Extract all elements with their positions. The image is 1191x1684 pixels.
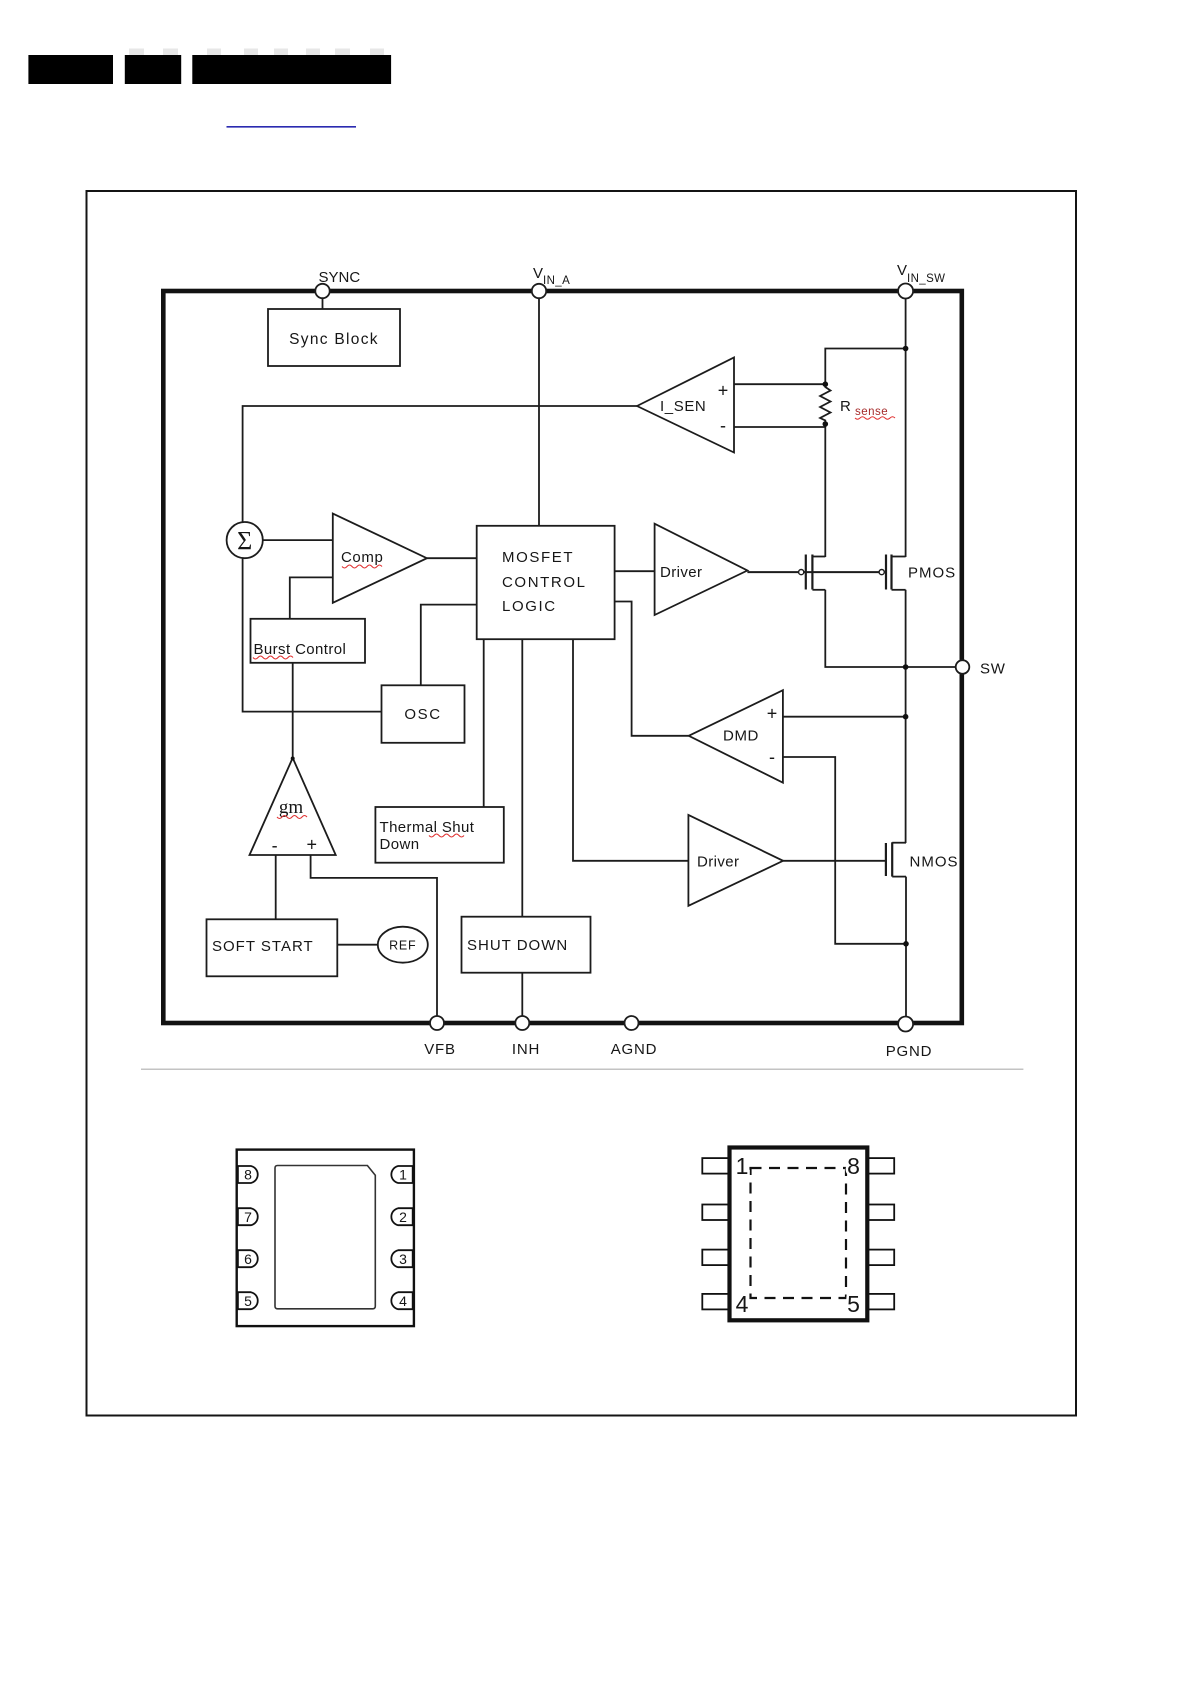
- svg-text:1: 1: [736, 1153, 749, 1179]
- svg-text:SYNC: SYNC: [319, 269, 361, 286]
- svg-text:OSC: OSC: [404, 706, 441, 723]
- wire: SYNC pin to Sync Block: [322, 293, 324, 309]
- pin SYNC: [315, 269, 360, 298]
- wire: sense FET source down to SW rail: [825, 590, 956, 667]
- svg-text:-: -: [769, 747, 775, 767]
- pin SW: [956, 660, 1006, 677]
- svg-text:3: 3: [399, 1251, 407, 1267]
- redaction bar tabs: [129, 49, 384, 56]
- wire: Burst Control to Comp lower input: [290, 577, 333, 618]
- svg-text:INH: INH: [512, 1041, 540, 1058]
- wire: Burst Control bottom to gm apex: [292, 662, 294, 758]
- svg-text:6: 6: [244, 1251, 252, 1267]
- svg-text:5: 5: [244, 1293, 252, 1309]
- wire: DMD output to MCL: [615, 602, 689, 736]
- junction Rsense top: [823, 381, 829, 387]
- package SO8 lead 7: [867, 1205, 894, 1221]
- voltage reference REF: [378, 927, 428, 963]
- pin VIN_SW: [897, 262, 945, 299]
- package SO8 lead 2: [702, 1205, 729, 1221]
- svg-text:SHUT DOWN: SHUT DOWN: [467, 937, 568, 954]
- svg-text:Sync Block: Sync Block: [289, 331, 379, 348]
- svg-text:-: -: [720, 416, 726, 436]
- svg-text:R: R: [840, 398, 851, 415]
- svg-text:8: 8: [847, 1153, 860, 1179]
- svg-text:8: 8: [244, 1167, 252, 1183]
- comparator DMD: [689, 690, 783, 783]
- buffer Driver2: [688, 815, 783, 906]
- svg-text:Driver: Driver: [697, 854, 739, 871]
- resistor Rsense: [820, 384, 895, 423]
- wire: I_SEN output to summer: [243, 406, 637, 522]
- comparator I_SEN: [637, 358, 734, 453]
- svg-text:+: +: [767, 704, 778, 724]
- svg-text:Driver: Driver: [660, 564, 702, 581]
- package SO8 lead 4: [702, 1294, 729, 1310]
- package DFN pin 7: [238, 1208, 258, 1225]
- transistor sense PMOS: [799, 555, 826, 590]
- svg-text:V: V: [897, 262, 907, 279]
- package DFN exposed pad: [275, 1166, 375, 1309]
- svg-text:gm: gm: [279, 797, 304, 818]
- wire: gm inverting input from SOFT START: [275, 855, 277, 919]
- wire: VIN_A pin down to MOSFET CONTROL LOGIC top: [538, 293, 540, 526]
- svg-text:V: V: [533, 265, 543, 282]
- svg-text:SOFT START: SOFT START: [212, 938, 314, 955]
- pin VFB: [424, 1016, 456, 1058]
- pin INH: [512, 1016, 540, 1058]
- junction NMOS source: [903, 941, 909, 947]
- package DFN pin 1: [391, 1166, 412, 1183]
- package SO8 lead 3: [702, 1250, 729, 1266]
- package SO8 lead 5: [867, 1294, 894, 1310]
- package DFN pin 2: [391, 1208, 412, 1225]
- block Thermal Shut Down: [375, 807, 503, 863]
- junction gm apex: [291, 757, 295, 761]
- svg-text:IN_A: IN_A: [543, 275, 570, 287]
- svg-text:PMOS: PMOS: [908, 565, 956, 582]
- svg-text:7: 7: [244, 1209, 252, 1225]
- package DFN pin 4: [391, 1292, 412, 1309]
- svg-text:AGND: AGND: [611, 1041, 658, 1058]
- svg-text:5: 5: [847, 1291, 860, 1317]
- wire: summer output to Comp input: [263, 539, 333, 541]
- svg-text:MOSFET: MOSFET: [502, 549, 574, 566]
- wire: NMOS source to PGND: [905, 877, 907, 1023]
- block SOFT START: [207, 919, 338, 976]
- svg-text:sense: sense: [855, 406, 888, 418]
- svg-text:2: 2: [399, 1209, 407, 1225]
- package DFN pin 8: [238, 1166, 258, 1183]
- wire: Comp output to MOSFET CONTROL LOGIC: [427, 557, 477, 559]
- block Burst Control: [251, 619, 366, 663]
- redaction bar 1: [28, 55, 113, 84]
- svg-text:Comp: Comp: [341, 549, 383, 566]
- wire: DMD + input from SW net: [783, 716, 906, 718]
- wire: I_SEN + input to Rsense top: [734, 383, 825, 385]
- svg-text:I_SEN: I_SEN: [660, 398, 706, 415]
- block Sync Block: [268, 309, 400, 366]
- junction SW / PMOS source: [903, 664, 909, 670]
- package SO8 body: [730, 1148, 868, 1321]
- svg-text:DMD: DMD: [723, 728, 759, 745]
- block MOSFET CONTROL LOGIC: [477, 526, 615, 639]
- package DFN pin 5: [238, 1292, 258, 1309]
- figure border: [87, 191, 1077, 1416]
- pin AGND: [611, 1016, 658, 1058]
- wire: SOFT START to REF: [337, 944, 378, 946]
- redaction bar 3: [192, 55, 391, 84]
- svg-text:IN_SW: IN_SW: [907, 273, 945, 285]
- amplifier gm: [250, 758, 336, 856]
- wire: MCL to Driver2 input: [573, 639, 688, 861]
- wire: MCL to Driver1 input: [615, 570, 655, 572]
- wire: Driver1 output to PMOS gates: [747, 571, 879, 573]
- transistor PMOS: [879, 555, 956, 590]
- wire: summer bottom to OSC input: [243, 558, 382, 711]
- svg-text:4: 4: [399, 1293, 407, 1309]
- pin PGND: [886, 1017, 933, 1061]
- wire: DMD - input from NMOS source: [783, 757, 906, 944]
- svg-text:VFB: VFB: [424, 1041, 456, 1058]
- svg-text:NMOS: NMOS: [910, 854, 959, 871]
- package DFN pin 6: [238, 1250, 258, 1267]
- separator line: [141, 1068, 1023, 1070]
- wire: OSC top to MOSFET CONTROL LOGIC: [421, 605, 477, 686]
- svg-text:4: 4: [736, 1291, 749, 1317]
- svg-text:REF: REF: [389, 939, 416, 953]
- wire: I_SEN - input to Rsense bottom: [734, 426, 825, 428]
- svg-text:Σ: Σ: [237, 527, 252, 556]
- package DFN pin 3: [391, 1250, 412, 1267]
- svg-text:1: 1: [399, 1167, 407, 1183]
- svg-text:+: +: [306, 835, 317, 855]
- wire: MCL to Thermal Shut Down: [483, 639, 485, 807]
- junction Rsense bottom: [823, 421, 829, 427]
- amplifier Comp: [333, 514, 427, 603]
- svg-text:Thermal Shut: Thermal Shut: [380, 819, 475, 836]
- svg-text:Down: Down: [380, 836, 420, 853]
- wire: PMOS source vertical to NMOS drain: [905, 590, 907, 843]
- svg-text:Burst Control: Burst Control: [254, 641, 347, 658]
- package SO8 lead 8: [867, 1158, 894, 1174]
- package SO8 lead 6: [867, 1250, 894, 1266]
- block SHUT DOWN: [462, 917, 591, 973]
- redaction bar 2: [125, 55, 181, 84]
- IC boundary: [163, 291, 962, 1023]
- svg-text:+: +: [718, 381, 729, 401]
- package SO8 lead 1: [702, 1158, 729, 1174]
- wire: INH line through SHUT DOWN to pin: [521, 639, 523, 1023]
- junction VIN_SW / Rsense: [903, 346, 909, 352]
- svg-text:SW: SW: [980, 661, 1006, 678]
- junction DMD+ tap: [903, 714, 909, 720]
- svg-text:-: -: [272, 836, 278, 856]
- svg-text:PGND: PGND: [886, 1043, 933, 1060]
- wire: Rsense bottom to sense FET drain: [824, 423, 826, 557]
- hyperlink underline: [227, 126, 357, 128]
- buffer Driver1: [655, 524, 748, 615]
- svg-text:LOGIC: LOGIC: [502, 598, 557, 615]
- wire: Rsense top node up and right to VIN_SW net: [825, 349, 905, 385]
- summing node: [227, 522, 263, 558]
- package DFN body: [237, 1150, 414, 1327]
- pin VIN_A: [532, 265, 570, 298]
- package SO8 dashed die outline: [751, 1168, 847, 1298]
- wire: VIN_SW pin down to PMOS drain: [905, 293, 907, 557]
- wire: gm + input from VFB pin: [311, 855, 437, 1023]
- transistor NMOS: [886, 842, 959, 876]
- block OSC: [382, 685, 465, 743]
- svg-text:CONTROL: CONTROL: [502, 574, 587, 591]
- wire: Driver2 output to NMOS gate: [783, 860, 886, 862]
